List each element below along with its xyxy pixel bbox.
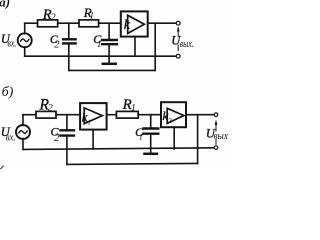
wire R2 to R1 (a) (58, 22, 79, 24)
wire amp1 to R1 (b) (107, 114, 117, 116)
svg-text:б): б) (2, 85, 14, 100)
wire R1 to amp (a) (99, 22, 121, 24)
svg-text:1: 1 (97, 40, 102, 50)
capacitor C1 (b) stub (150, 115, 152, 128)
rail1 ground wire (a) (25, 55, 177, 57)
capacitor C2 (a) plates (63, 38, 75, 40)
ground bar (a) (103, 63, 116, 66)
svg-text:1: 1 (139, 132, 143, 142)
capacitor C2 (b) stub (66, 115, 68, 130)
output wire (a) (148, 22, 177, 24)
source U_vx circle (b) (16, 125, 30, 139)
rail1 ground wire (b) (23, 148, 214, 150)
wire C2 bottom to rail2 (a) (68, 45, 70, 71)
svg-text:а): а) (0, 0, 10, 10)
feedback vertical output to rail2 (b) (197, 115, 199, 164)
amp k2 common pin (b) (173, 127, 175, 149)
wire R2 to amp1 (b) (56, 114, 80, 116)
rail2 wire (b) (67, 163, 198, 164)
amp k2 triangle (b) (167, 108, 184, 123)
wire source top stub (a) (24, 23, 26, 34)
feedback vertical from output to rail2 (a) (154, 23, 156, 70)
source top stub (b) (22, 115, 24, 126)
amplifier k2 box (b) (161, 102, 186, 127)
resistor R1 (a) (79, 20, 99, 27)
svg-text:2: 2 (54, 39, 60, 50)
source bottom stub (a) (24, 47, 26, 56)
wire C1 bottom through rail1 (a) (108, 45, 110, 62)
svg-text:вх.: вх. (8, 39, 17, 50)
capacitor C2 (a) stub from top wire (68, 23, 70, 38)
amplifier k1 box (b) (80, 103, 107, 130)
svg-text:2: 2 (50, 13, 56, 24)
source bottom stub (b) (22, 139, 24, 150)
output terminal top (b) (214, 113, 218, 117)
output terminal top (a) (176, 21, 180, 25)
U_vyx arrow (a) (177, 45, 179, 51)
output wire (b) (186, 114, 214, 116)
ground bar (b) (145, 153, 158, 156)
svg-text:вых.: вых. (180, 39, 194, 50)
amp k1 triangle (b) (84, 108, 102, 124)
amp common pin wire (a) (134, 37, 136, 57)
svg-text:2: 2 (48, 103, 53, 114)
output terminal bottom (a) (176, 54, 180, 58)
op-amp U1 box (a) (121, 11, 148, 36)
source U_vx circle (a) (18, 33, 32, 47)
svg-text:k: k (124, 18, 131, 33)
top wire corner to R2 (b) (23, 114, 36, 116)
stray scan mark bottom-left (1, 166, 3, 169)
svg-text:вх.: вх. (6, 133, 16, 144)
rail2 feedback wire (a) (69, 69, 155, 71)
resistor R2 (b) (36, 111, 56, 118)
wire C2 bottom to rail2 (b) (66, 137, 68, 165)
capacitor C2 (b) plates (61, 129, 75, 131)
svg-text:2: 2 (168, 116, 172, 125)
source tilde (a) (21, 39, 29, 42)
wire top: corner to R2 (a) (25, 22, 38, 24)
svg-text:1: 1 (131, 104, 136, 114)
resistor R2 (a) (38, 20, 58, 27)
resistor R1 (b) (116, 111, 138, 118)
amp k1 common pin (b) (92, 130, 94, 149)
output terminal bottom (b) (214, 146, 218, 150)
capacitor C1 (a) plates (102, 39, 117, 41)
U_vyx arrow (b) (215, 140, 217, 145)
op-amp triangle (a) (128, 15, 145, 33)
svg-text:вых: вых (214, 131, 229, 142)
wire R1 to amp2 (b) (138, 114, 161, 116)
capacitor C1 (a) stub from top wire (108, 23, 110, 39)
wire C1 bottom through rail1 (b) (150, 135, 152, 153)
svg-text:1: 1 (89, 12, 94, 22)
source tilde (b) (19, 131, 27, 134)
capacitor C1 (b) plates (144, 127, 159, 129)
svg-text:1: 1 (87, 118, 91, 127)
svg-text:2: 2 (54, 132, 60, 144)
